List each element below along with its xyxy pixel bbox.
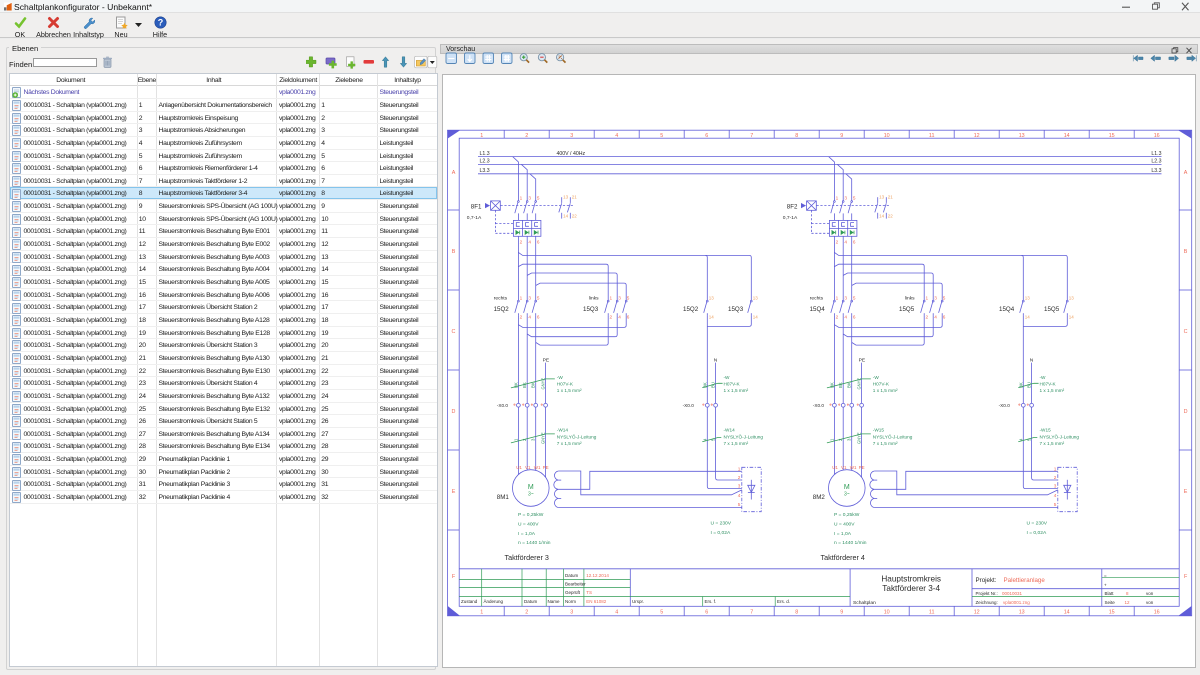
svg-text:Geprüft: Geprüft [565,590,581,595]
svg-text:15Q2: 15Q2 [683,306,699,313]
svg-text:L1.3: L1.3 [1151,151,1161,157]
svg-text:4: 4 [528,239,531,244]
svg-text:Hauptstromkreis: Hauptstromkreis [881,575,941,584]
svg-text:5: 5 [627,296,630,301]
svg-text:1: 1 [738,466,741,471]
svg-text:Ers. d.: Ers. d. [777,599,790,604]
svg-text:16: 16 [1154,133,1160,139]
svg-text:F: F [452,574,456,580]
svg-text:BK: BK [702,382,707,388]
svg-text:=: = [1104,573,1107,578]
svg-text:H07V-K: H07V-K [557,382,574,387]
svg-text:Taktförderer 3-4: Taktförderer 3-4 [882,584,940,593]
svg-text:15Q5: 15Q5 [1044,306,1060,313]
svg-text:Taktförderer 4: Taktförderer 4 [821,553,865,562]
svg-text:U1: U1 [516,465,522,470]
svg-text:15Q4: 15Q4 [999,306,1015,313]
svg-text:Name: Name [548,599,561,604]
svg-text:I = 0,02A: I = 0,02A [711,530,731,536]
svg-text:15: 15 [1109,609,1115,615]
svg-text:Blatt: Blatt [1105,591,1115,596]
svg-text:1: 1 [480,609,483,615]
svg-text:Urspr.: Urspr. [632,599,644,604]
svg-text:4: 4 [738,493,741,498]
svg-text:TS: TS [586,590,592,595]
svg-text:von: von [1146,600,1154,605]
svg-text:Bearbeiter: Bearbeiter [565,581,586,586]
svg-text:NYSLYÖ-J-Leitung: NYSLYÖ-J-Leitung [724,433,764,439]
svg-text:Palettieranlage: Palettieranlage [1004,577,1046,584]
svg-text:4: 4 [618,315,621,320]
svg-text:C: C [452,329,456,335]
svg-text:8M2: 8M2 [813,494,826,501]
svg-text:?: ? [157,18,163,28]
svg-text:P = 0,25kW: P = 0,25kW [518,512,544,518]
svg-text:7: 7 [750,609,753,615]
svg-text:-W14: -W14 [557,427,569,432]
svg-text:7 x 1,5 mm²: 7 x 1,5 mm² [724,441,749,446]
svg-text:Zustand: Zustand [461,599,478,604]
svg-text:4: 4 [615,133,618,139]
svg-text:1: 1 [610,296,613,301]
svg-text:GNYE: GNYE [541,432,546,444]
svg-text:Zeichnung:: Zeichnung: [976,600,998,605]
svg-text:8M1: 8M1 [497,494,510,501]
svg-text:L2.3: L2.3 [1151,159,1161,165]
svg-text:PE: PE [543,465,549,470]
svg-text:15Q2: 15Q2 [494,306,510,313]
svg-text:n = 1440 1/min: n = 1440 1/min [518,540,551,546]
svg-text:1 x 1,5 mm²: 1 x 1,5 mm² [557,388,582,393]
svg-text:4: 4 [615,609,618,615]
svg-text:15Q3: 15Q3 [728,306,744,313]
svg-text:2: 2 [520,315,523,320]
svg-text:5: 5 [660,133,663,139]
svg-text:L3.3: L3.3 [480,168,490,174]
svg-text:E: E [1184,489,1188,495]
svg-text:16: 16 [1154,609,1160,615]
svg-text:6: 6 [537,315,540,320]
svg-text:15Q4: 15Q4 [810,306,826,313]
svg-text:rechts: rechts [494,295,508,301]
svg-text:12: 12 [1125,600,1131,605]
svg-text:12.12.2014: 12.12.2014 [586,573,609,578]
svg-text:5: 5 [738,502,741,507]
svg-text:D: D [452,409,456,415]
svg-text:BK: BK [531,382,536,388]
svg-text:22: 22 [572,213,578,218]
svg-text:EN 61082: EN 61082 [586,599,607,604]
svg-text:400V / 40Hz: 400V / 40Hz [557,151,586,157]
svg-text:15: 15 [1109,133,1115,139]
svg-text:A: A [1184,170,1188,176]
svg-text:V1: V1 [525,465,531,470]
svg-text:links: links [589,295,599,301]
svg-text:-X0.0: -X0.0 [497,403,509,408]
svg-text:H07V-K: H07V-K [724,382,741,387]
svg-text:Projekt:: Projekt: [976,577,997,584]
svg-text:2: 2 [525,609,528,615]
svg-text:A: A [452,170,456,176]
svg-text:8: 8 [795,133,798,139]
svg-text:14: 14 [1064,133,1070,139]
svg-text:-W15: -W15 [873,427,885,432]
svg-text:13: 13 [1019,133,1025,139]
svg-text:2: 2 [525,133,528,139]
svg-text:B: B [452,249,456,255]
svg-text:1: 1 [520,195,523,200]
svg-text:Datum: Datum [565,573,579,578]
svg-text:Änderung: Änderung [484,598,504,604]
svg-text:L1.3: L1.3 [480,151,490,157]
svg-text:12: 12 [974,609,980,615]
svg-text:8F1: 8F1 [471,203,482,210]
svg-text:3: 3 [570,133,573,139]
svg-text:7 x 1,5 mm²: 7 x 1,5 mm² [557,441,582,446]
svg-text:6: 6 [537,239,540,244]
svg-text:GNYE: GNYE [541,378,546,390]
svg-text:Datum: Datum [524,599,538,604]
svg-text:5: 5 [537,195,540,200]
svg-text:+: + [1104,583,1107,588]
svg-text:6: 6 [705,609,708,615]
svg-text:Taktförderer 3: Taktförderer 3 [505,553,549,562]
svg-text:2: 2 [738,475,741,480]
svg-text:BK: BK [522,382,527,388]
svg-text:N: N [714,357,718,363]
svg-text:1: 1 [520,296,523,301]
svg-text:1: 1 [513,438,518,441]
svg-text:3: 3 [528,296,531,301]
svg-text:15Q5: 15Q5 [899,306,915,313]
svg-text:14: 14 [1064,609,1070,615]
svg-text:3: 3 [570,609,573,615]
svg-text:3: 3 [528,195,531,200]
svg-text:14: 14 [563,213,569,218]
svg-text:13: 13 [753,296,759,301]
svg-text:BK: BK [513,382,518,388]
svg-text:10: 10 [884,609,890,615]
svg-text:00010031: 00010031 [1002,591,1023,596]
svg-text:B: B [1184,249,1188,255]
svg-text:E: E [452,489,456,495]
svg-text:PE: PE [543,357,550,363]
svg-text:7: 7 [750,133,753,139]
svg-text:10: 10 [884,133,890,139]
svg-text:M: M [528,484,534,491]
svg-text:-W: -W [724,375,731,380]
svg-text:2: 2 [610,315,613,320]
svg-text:BU: BU [711,382,716,388]
svg-text:3~: 3~ [528,492,534,498]
svg-text:-W15: -W15 [1040,427,1052,432]
svg-text:0,7-1A: 0,7-1A [467,215,482,221]
svg-text:I = 1,0A: I = 1,0A [518,531,536,537]
svg-text:Schaltplan: Schaltplan [853,600,876,606]
svg-text:2: 2 [520,239,523,244]
svg-text:6: 6 [705,133,708,139]
svg-text:8F2: 8F2 [787,203,798,210]
svg-text:-W14: -W14 [724,427,736,432]
svg-text:NYSLYÖ-J-Leitung: NYSLYÖ-J-Leitung [557,433,597,439]
svg-text:Seite: Seite [1105,600,1116,605]
svg-text:C: C [1184,329,1188,335]
svg-text:14: 14 [753,315,759,320]
svg-text:9: 9 [840,609,843,615]
svg-text:8: 8 [1126,591,1129,596]
svg-text:11: 11 [929,609,935,615]
svg-text:W1: W1 [534,465,541,470]
svg-text:Ers. f.: Ers. f. [705,599,717,604]
svg-text:5: 5 [537,296,540,301]
svg-text:21: 21 [572,195,578,200]
svg-text:14: 14 [709,315,715,320]
svg-text:F: F [1184,574,1188,580]
svg-text:U = 400V: U = 400V [518,522,539,528]
svg-text:15Q3: 15Q3 [583,306,599,313]
svg-text:11: 11 [929,133,935,139]
svg-text:3: 3 [531,438,536,441]
svg-text:Projekt Nr.:: Projekt Nr.: [976,591,998,596]
svg-text:4: 4 [528,315,531,320]
svg-text:vpla0001.zng: vpla0001.zng [1003,600,1030,605]
svg-text:1 x 1,5 mm²: 1 x 1,5 mm² [724,388,749,393]
svg-text:3: 3 [618,296,621,301]
svg-text:D: D [1184,409,1188,415]
svg-text:1: 1 [480,133,483,139]
svg-text:8: 8 [795,609,798,615]
svg-text:L3.3: L3.3 [1151,168,1161,174]
svg-text:2: 2 [522,438,527,441]
svg-text:-W: -W [557,375,564,380]
svg-text:13: 13 [1019,609,1025,615]
svg-text:L2.3: L2.3 [480,159,490,165]
svg-text:U = 230V: U = 230V [711,520,732,526]
svg-text:Norm: Norm [565,599,576,604]
svg-text:von: von [1146,591,1154,596]
svg-text:5: 5 [660,609,663,615]
svg-text:3: 3 [738,484,741,489]
svg-text:13: 13 [709,296,715,301]
svg-text:6: 6 [627,315,630,320]
svg-text:12: 12 [974,133,980,139]
svg-text:9: 9 [840,133,843,139]
svg-text:4: 4 [702,438,707,441]
svg-text:-X0.0: -X0.0 [683,403,695,408]
svg-text:13: 13 [563,195,569,200]
